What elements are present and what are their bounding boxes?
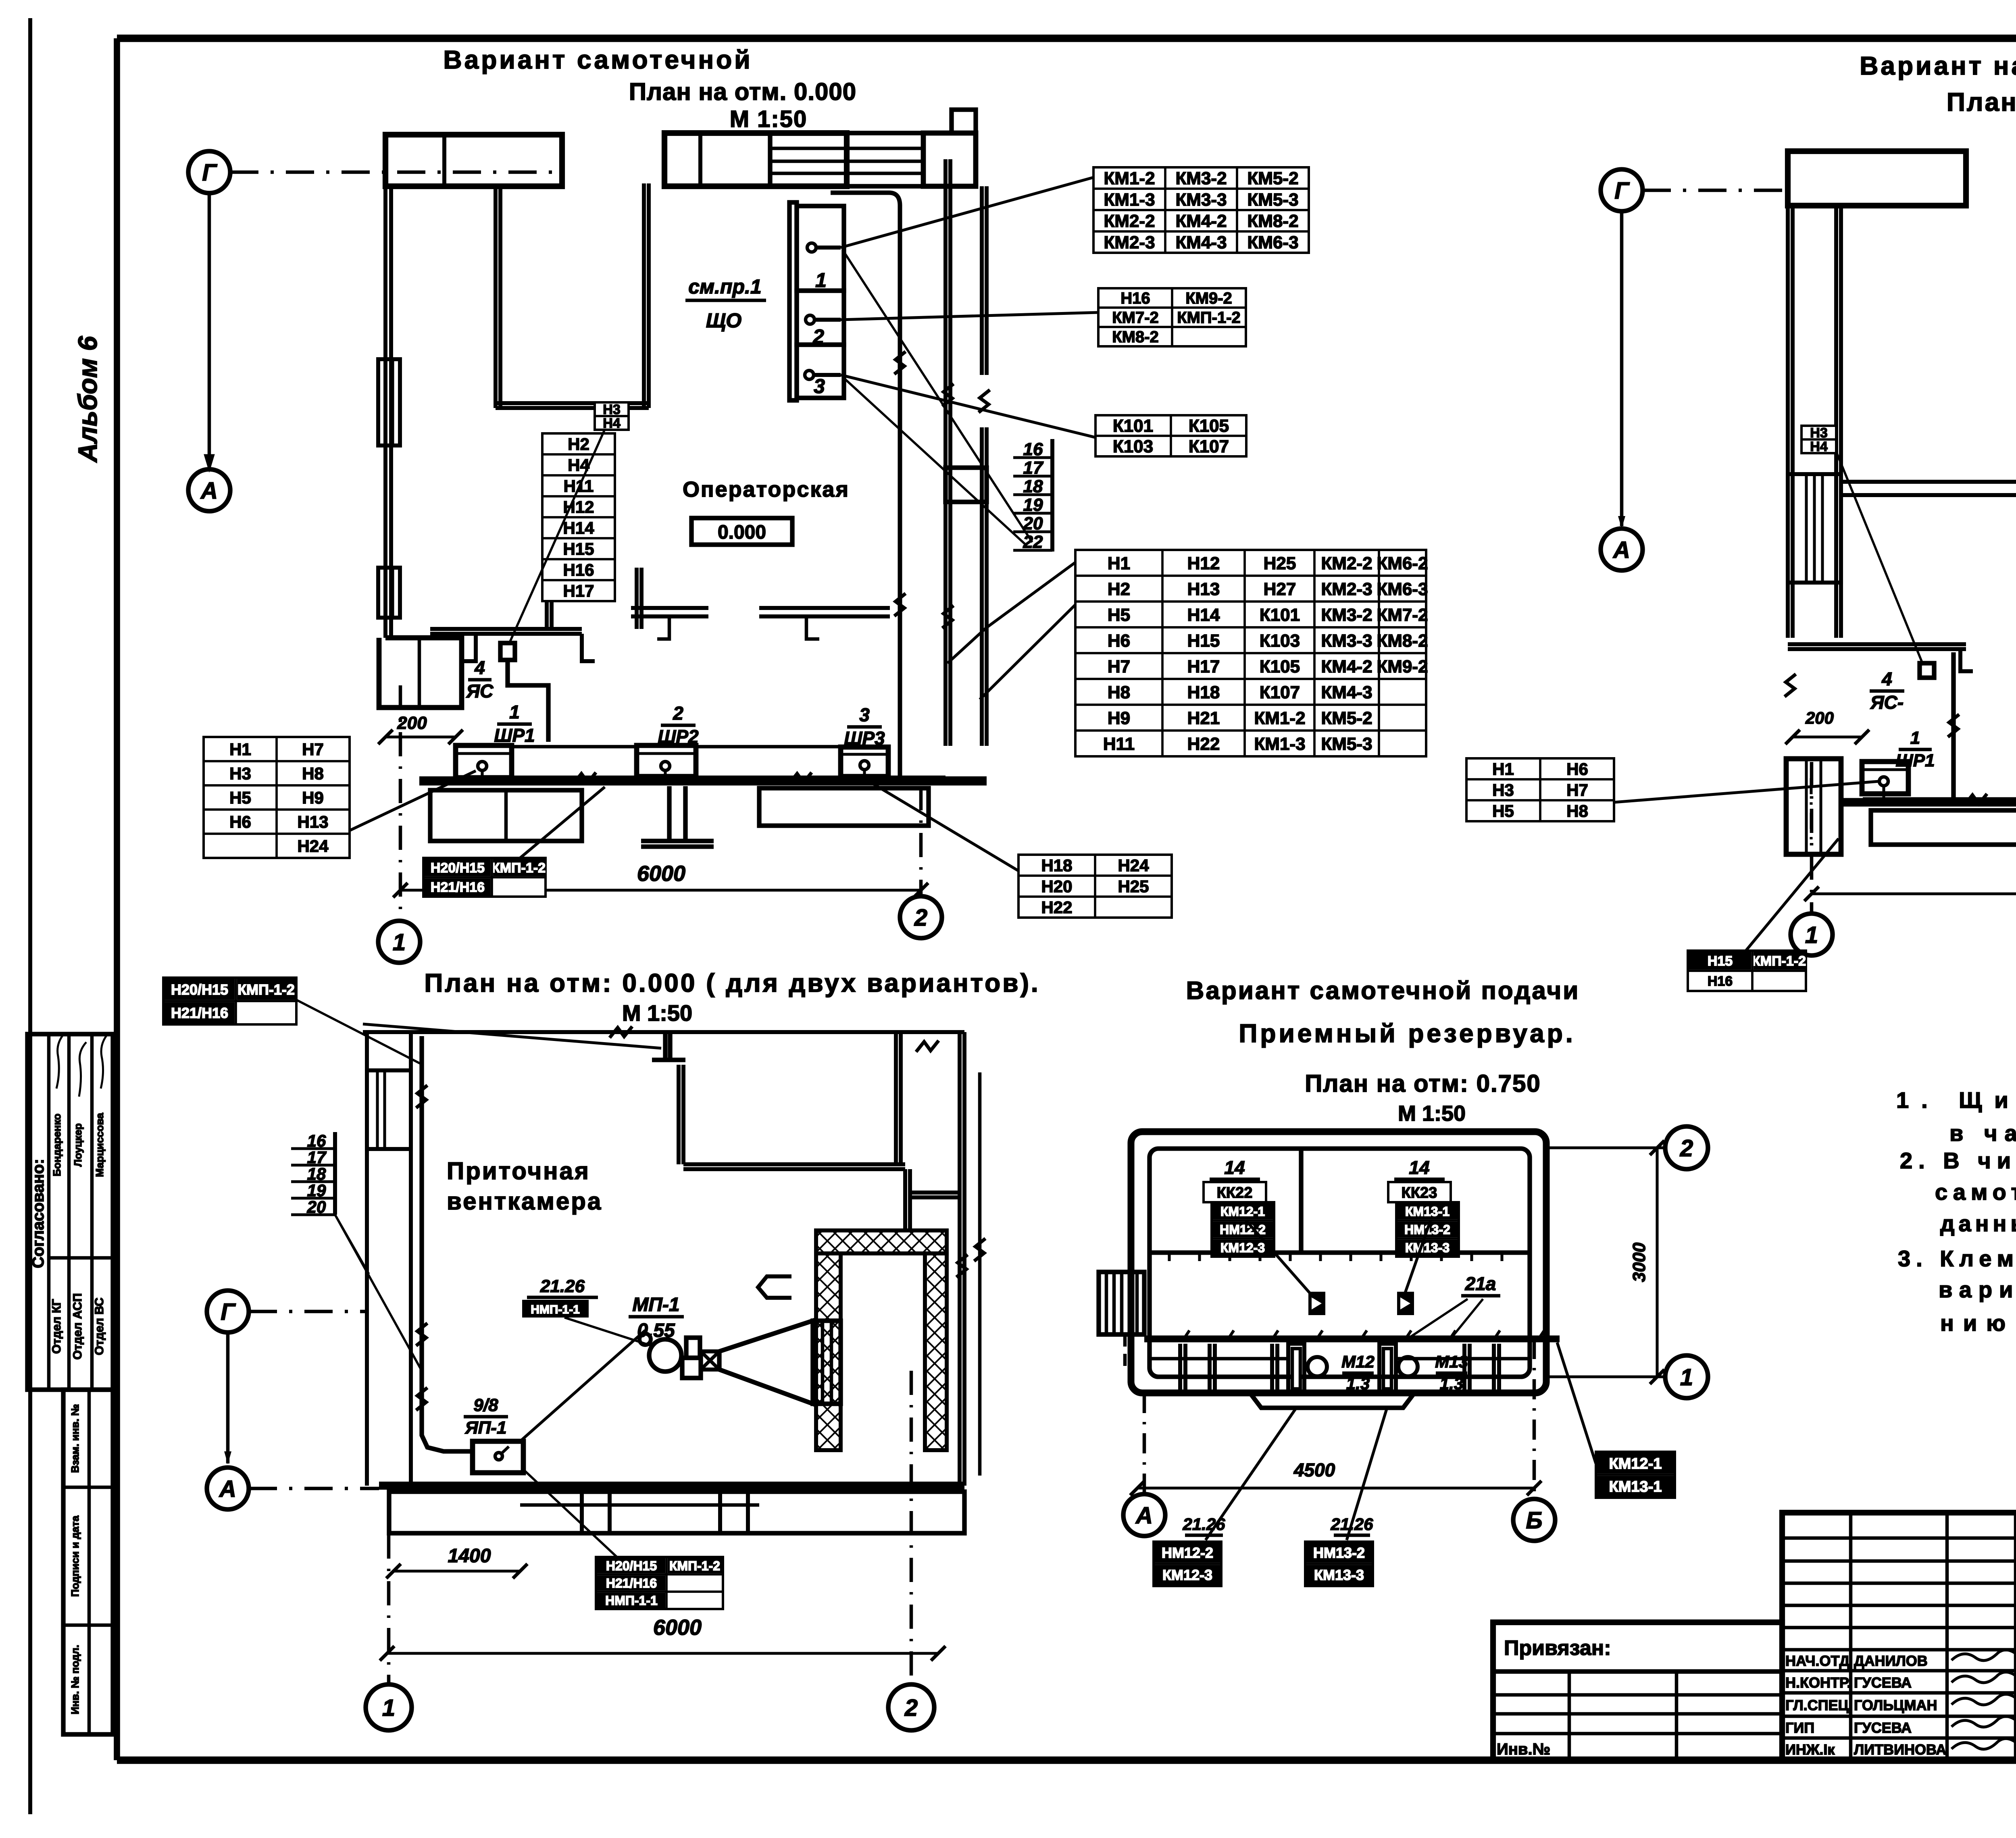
svg-text:Н.КОНТР.: Н.КОНТР. [1785,1674,1851,1691]
plan3 axis Г line [249,1310,367,1313]
plan4 title line4 [1398,1101,1466,1126]
svg-text:Н4: Н4 [603,416,621,431]
plan4 junction box КК23 [1397,1292,1414,1315]
svg-text:4: 4 [474,657,485,678]
plan3 interior L wall vertical [679,1065,683,1164]
plan1 cabinet ШР2 [637,745,696,781]
svg-text:К107: К107 [1260,683,1300,702]
plan1 cabinet ШР1 [456,745,512,781]
svg-text:КМ13-3: КМ13-3 [1314,1567,1364,1583]
sheet outer edge line left [28,18,32,1814]
svg-text:КК22: КК22 [1217,1184,1253,1201]
plan3 number ladder 16-20 [291,1131,335,1216]
svg-text:Инв. № подл.: Инв. № подл. [69,1645,81,1715]
plan1 axis circle 1 [378,921,420,963]
leader plan1 panel crossing 2 [843,377,1026,545]
plan2 dim 200 a [1785,708,1869,744]
svg-text:КМП-1-2: КМП-1-2 [669,1559,720,1573]
svg-text:Н8: Н8 [1108,683,1130,702]
plan4 leader pump1 to table [1206,1408,1296,1540]
plan1 cabinet ШР3 [841,747,888,781]
svg-text:6000: 6000 [653,1615,702,1640]
plan2 axis А circle [1601,529,1643,570]
plan3 interior wall vertical right [905,1169,910,1230]
plan1 interior wall horizontal [496,403,649,408]
svg-text:НАЧ.ОТД: НАЧ.ОТД [1785,1653,1849,1669]
plan4 table 14 КК23 [1388,1157,1459,1257]
svg-text:1.3: 1.3 [1440,1374,1463,1393]
plan1 southwest room [379,638,462,708]
svg-text:Н24: Н24 [297,837,329,856]
svg-text:Н1: Н1 [1108,554,1130,573]
svg-text:М 1:50: М 1:50 [730,106,808,132]
plan1 south rooms walls [430,568,641,634]
plan4 tank partition [1299,1149,1303,1253]
plan4 table НМ13-2 [1305,1542,1373,1586]
svg-text:М13: М13 [1435,1352,1468,1371]
svg-text:Н7: Н7 [1566,781,1588,799]
svg-text:4: 4 [1881,668,1892,689]
notes item 2 line 1 [1900,1148,2016,1173]
plan1 interior wall vertical center [644,183,649,408]
svg-text:Н17: Н17 [1187,657,1220,677]
plan2 south slab a [1871,810,2016,845]
leader plan1 Н18 table to ШР3 [867,780,1018,871]
svg-text:Н11: Н11 [1103,734,1135,754]
svg-text:КМ2-2: КМ2-2 [1321,554,1372,573]
svg-text:А: А [219,1476,236,1502]
svg-text:НМП-1-1: НМП-1-1 [531,1303,580,1316]
svg-text:Г: Г [1614,178,1630,204]
plan2 cable run bottom [1863,794,2016,805]
plan1 title line2 [629,78,856,105]
svg-text:14: 14 [1409,1157,1429,1178]
svg-text:ГОЛЬЦМАН: ГОЛЬЦМАН [1854,1697,1937,1713]
svg-text:Н2: Н2 [1108,579,1130,599]
svg-text:Н1: Н1 [1492,760,1514,778]
plan4 label 21а [1409,1273,1500,1338]
plan1 label 1/ШР1 [494,701,535,746]
plan4 table НМ12-2 [1154,1542,1221,1586]
svg-text:Н13: Н13 [297,812,328,831]
svg-text:КМ1-2: КМ1-2 [1254,708,1305,728]
plan3 leader fan to ЯП [520,1330,645,1441]
svg-text:КМ8-2: КМ8-2 [1112,328,1159,346]
svg-text:Н20/Н15: Н20/Н15 [171,981,228,998]
svg-text:КМ5-2: КМ5-2 [1247,169,1298,188]
plan2 north wall west block [1788,151,1966,206]
svg-text:3. Клеммные коробки КК12.: 3. Клеммные коробки КК12. КК23 при- [1898,1246,2016,1271]
plan2 cabinet ШР1 [1862,762,1908,799]
svg-text:2: 2 [914,905,927,931]
plan3 hatched wall vertical [816,1253,841,1450]
svg-text:ЯС-: ЯС- [1870,692,1904,713]
notes item 1 line 2 [1949,1120,2016,1146]
svg-text:Согласовано:: Согласовано: [29,1159,47,1268]
svg-text:Н18: Н18 [1187,683,1220,702]
svg-text:Н8: Н8 [302,764,324,783]
plan1 dim 6000 line [393,862,928,897]
svg-text:КМ6-2: КМ6-2 [1377,554,1428,573]
plan4 barrier line [1144,1330,1560,1339]
svg-text:А: А [200,478,218,504]
svg-text:КМ9-2: КМ9-2 [1377,657,1428,677]
svg-text:Н27: Н27 [1264,579,1296,599]
plan1 box list Н3 Н4 [595,402,629,431]
plan4 junction box КК12 [1308,1292,1325,1315]
svg-text:0.000: 0.000 [718,522,766,543]
plan1 east wall breaks [942,384,990,628]
svg-text:200: 200 [397,713,427,733]
svg-text:ШР1: ШР1 [1896,751,1935,770]
svg-text:Г: Г [221,1299,236,1325]
plan4 table 14 КК22 [1204,1157,1274,1257]
svg-text:Н2: Н2 [568,435,589,454]
svg-text:КМ1-2: КМ1-2 [1104,169,1155,188]
svg-text:КМ13-1: КМ13-1 [1405,1204,1450,1219]
svg-text:Вариант самотечной: Вариант самотечной [443,45,752,74]
svg-text:Н9: Н9 [302,788,324,807]
plan3 ladder leaders [335,1215,422,1371]
svg-text:К101: К101 [1113,416,1153,436]
svg-text:КМ12-1: КМ12-1 [1609,1455,1662,1472]
svg-text:14: 14 [1224,1157,1245,1178]
svg-text:К105: К105 [1260,657,1300,677]
svg-text:НМ13-2: НМ13-2 [1313,1545,1365,1561]
svg-text:Н8: Н8 [1566,801,1588,820]
svg-text:ГИП: ГИП [1785,1719,1814,1736]
svg-text:Отдел КГ: Отдел КГ [50,1299,63,1354]
plan1 panel ЩО plate [789,202,797,400]
svg-text:КМ8-2: КМ8-2 [1377,631,1428,651]
plan4 rails far left [1180,1344,1277,1393]
plan1 label 3/ШР3 [844,704,885,749]
plan1 south slab west [430,790,582,841]
leader plan1 panel3 to К101 table [841,375,1095,437]
svg-text:Лоуцкер: Лоуцкер [72,1123,84,1167]
plan3 fan pump body [682,1338,701,1378]
plan4 label М13 [1435,1352,1468,1393]
svg-text:КМ7-2: КМ7-2 [1377,605,1428,625]
table plan3 bottom [596,1557,723,1609]
plan1 label см.пр.1/ЩО [685,275,766,332]
svg-text:4500: 4500 [1293,1459,1335,1480]
plan4 pump M13 circle [1398,1357,1418,1376]
plan2 interior wall vertical left [1836,206,1841,638]
plan3 label МП-1 0.55 [629,1294,684,1341]
svg-text:ГУСЕВА: ГУСЕВА [1854,1674,1912,1691]
svg-text:А: А [1612,537,1630,563]
plan3 top T column [652,1032,685,1060]
svg-text:КМ2-3: КМ2-3 [1321,579,1372,599]
plan4 dim 4500 [1130,1459,1541,1495]
svg-text:Н7: Н7 [1108,657,1130,677]
plan4 left ladder [1099,1272,1144,1334]
svg-text:ГЛ.СПЕЦ: ГЛ.СПЕЦ [1785,1697,1849,1713]
plan1 axis Г circle [188,151,230,193]
svg-text:ШР1: ШР1 [494,725,535,746]
plan3 title line1 [424,968,1040,997]
svg-text:данные для варианта напорн: данные для варианта напорной подачи. [1940,1211,2016,1236]
svg-text:ЩО: ЩО [706,309,741,332]
svg-text:Н3: Н3 [1492,781,1514,799]
svg-text:КМ13-1: КМ13-1 [1609,1478,1662,1495]
svg-text:КМ12-1: КМ12-1 [1220,1204,1265,1219]
notes item 2 line 2 [1935,1179,2016,1205]
plan3 hatched wall vertical right [925,1253,947,1450]
svg-text:Альбом 6: Альбом 6 [73,335,102,463]
plan4 mid horizontal lines [1150,1357,1530,1361]
plan3 top cut line [363,1026,964,1052]
plan1 interior wall vertical left [496,186,500,408]
svg-text:2. В числителе данные для: 2. В числителе данные для варианта [1900,1148,2016,1173]
plan1 axis A circle [188,469,230,511]
plan2 wall breaks [1785,352,2016,697]
plan3 room label [447,1157,602,1215]
svg-text:1: 1 [1680,1364,1693,1390]
plan1 south T footings [463,634,595,661]
plan4 title line2 [1239,1019,1575,1048]
svg-text:Н4: Н4 [1810,439,1828,454]
plan3 axis2 dashline [910,1371,913,1685]
plan4 tank inner wall [1150,1149,1530,1377]
svg-text:Н21: Н21 [1187,708,1220,728]
plan4 pump M12 circle [1308,1357,1327,1376]
svg-text:3000: 3000 [1629,1243,1649,1282]
svg-text:А: А [1135,1503,1153,1529]
plan1 elevation box 0.000 [691,518,792,545]
plan4 left inlet dash [1123,1334,1127,1371]
plan1 north window [770,133,923,186]
plan3 east cable [974,1072,985,1476]
plan3 axis1 dashline [387,1488,391,1685]
svg-text:Вариант самотечной подачи: Вариант самотечной подачи [1186,977,1580,1005]
svg-text:Н14: Н14 [563,518,594,537]
plan2 south wall thick [1841,798,2016,806]
plan4 axis circle 1 right [1665,1355,1708,1398]
svg-text:Приемный резервуар.: Приемный резервуар. [1239,1019,1575,1048]
plan4 leader КК23 [1404,1220,1431,1296]
stamp block inv numbers [63,1390,113,1734]
svg-text:М12: М12 [1341,1352,1375,1371]
plan1 cabinet wall line [512,745,841,749]
plan3 interior wall horizontal [683,1164,905,1169]
plan4 title line3 [1305,1070,1541,1097]
plan1 west wall [385,186,391,638]
plan3 fan motor small circle [639,1334,651,1345]
svg-text:Н18: Н18 [1041,856,1072,875]
plan3 axis connector [224,1332,231,1464]
svg-text:самотечной подачи, в знамена: самотечной подачи, в знаменателе [1935,1179,2016,1205]
leader plan3 top table [296,1000,422,1064]
plan2 box list Н3 Н4 [1801,425,1836,454]
svg-text:ШР2: ШР2 [658,726,699,747]
svg-text:КМ9-2: КМ9-2 [1185,289,1232,307]
svg-text:КМ4-2: КМ4-2 [1175,211,1227,231]
plan3 fan motor [649,1339,681,1372]
plan3 south slab [389,1492,964,1533]
svg-text:КМ4-3: КМ4-3 [1321,683,1372,702]
svg-text:Н3: Н3 [229,764,251,783]
table H left [204,737,350,858]
svg-text:Подписи и дата: Подписи и дата [69,1515,81,1597]
svg-text:К101: К101 [1260,605,1300,625]
svg-text:НМП-1-1: НМП-1-1 [605,1593,658,1608]
svg-text:Отдел АСП: Отдел АСП [71,1293,84,1360]
svg-text:ЛИТВИНОВА: ЛИТВИНОВА [1854,1741,1946,1758]
svg-text:Операторская: Операторская [683,477,850,502]
plan1 axis1 dashline [399,685,402,921]
svg-text:1: 1 [393,929,406,955]
plan1 title line1 [443,45,752,74]
svg-text:Н22: Н22 [1187,734,1220,754]
svg-text:2: 2 [1680,1135,1693,1161]
svg-text:ИНЖ.Iк: ИНЖ.Iк [1785,1741,1835,1758]
plan1 west window 2 [378,568,400,618]
svg-text:см.пр.1: см.пр.1 [688,275,761,298]
stamp block Согласовано [27,1034,113,1390]
leader plan1 panel2 to Н16 table [841,312,1098,320]
svg-text:21а: 21а [1465,1273,1496,1294]
plan1 label 4/ЯС [466,657,494,701]
svg-text:КМ6-3: КМ6-3 [1247,233,1298,252]
plan1 axis2 dashline [919,786,923,896]
plan1 panel box 2 [797,291,844,348]
svg-text:КМ12-3: КМ12-3 [1162,1567,1212,1583]
plan3 axis А circle [207,1467,249,1509]
svg-text:Б: Б [1526,1507,1542,1534]
plan2 axis Г line [1643,189,1788,192]
svg-text:в части АТХ.: в части АТХ. [1949,1120,2016,1146]
svg-text:КМ3-3: КМ3-3 [1321,631,1372,651]
plan3 east outer wall [956,1032,968,1486]
plan4 shelf line [1150,1253,1530,1261]
plan1 south slab east [759,788,929,826]
svg-text:КМ5-3: КМ5-3 [1247,190,1298,210]
leader plan1 panel1 to КМ table [841,177,1093,248]
svg-text:План на отм: 0.000: План на отм: 0.000 [1947,87,2016,117]
svg-text:венткамера: венткамера [447,1188,602,1215]
plan1 west window 1 [378,359,400,445]
plan2 west rooms south wall [1788,644,1973,671]
svg-text:Н14: Н14 [1187,605,1220,625]
plan2 west window [1788,474,1841,583]
svg-text:Инв.№: Инв.№ [1497,1740,1550,1758]
table Н18 Н24 [1018,855,1172,918]
svg-text:Н15: Н15 [1187,631,1220,651]
svg-text:Н20/Н15: Н20/Н15 [606,1559,657,1573]
plan4 label 21.26 left [1182,1515,1225,1535]
svg-text:КМ7-2: КМ7-2 [1112,309,1159,327]
svg-text:21.26: 21.26 [540,1276,585,1296]
plan3 label 9/8 ЯП-1 [464,1395,508,1438]
plan3 hatched wall horizontal [816,1230,947,1253]
svg-text:КМ3-2: КМ3-2 [1321,605,1372,625]
plan4 axis circle А [1123,1494,1165,1536]
leader plan1 H big table [948,562,1075,663]
svg-text:2: 2 [673,703,683,724]
svg-text:Н21/Н16: Н21/Н16 [431,880,485,895]
plan4 label 21.26 right [1330,1515,1373,1535]
plan3 fan outlet [813,1321,841,1404]
svg-text:Н15: Н15 [563,539,594,558]
plan3 cable riser [416,1036,473,1451]
leader plan1 bottom table [520,787,605,858]
svg-text:нию с внешней стороны.: нию с внешней стороны. [1940,1310,2016,1336]
plan3 fan coupling crosshatch [701,1351,719,1370]
plan1 junction box ЯС [500,643,515,660]
svg-text:Н5: Н5 [1108,605,1130,625]
plan2 cable drop to ШР1 [1948,652,1959,797]
svg-text:200: 200 [1805,708,1834,727]
svg-text:КМ3-3: КМ3-3 [1175,190,1227,210]
svg-text:Н22: Н22 [1041,898,1072,917]
plan2 axis connector [1618,211,1625,529]
album label [73,335,102,463]
svg-text:КМ5-2: КМ5-2 [1321,708,1372,728]
svg-text:План на отм. 0.000: План на отм. 0.000 [629,78,856,105]
svg-text:варить к металлическому огр: варить к металлическому огражде- [1939,1277,2016,1302]
plan3 box ЯП-1 [473,1441,523,1473]
svg-text:М 1:50: М 1:50 [1398,1101,1466,1126]
plan1 south wall thick [419,776,987,786]
svg-text:КМ4-2: КМ4-2 [1321,657,1372,677]
plan2 title line1 [1860,51,2016,80]
svg-text:Н13: Н13 [1187,579,1220,599]
table plan3 top Н20/Н15 [163,978,296,1024]
plan3 axis circle 1 [366,1684,412,1730]
svg-text:НМ12-2: НМ12-2 [1162,1545,1213,1561]
plan1 north wall middle block [664,133,847,186]
svg-text:1. Щит оператора зака: 1. Щит оператора заказан [1896,1087,2016,1113]
leader plan2 Н1Н6 to ШР1 [1614,781,1879,802]
plan1 number ladder 16-22 [1013,439,1052,552]
svg-text:1: 1 [815,269,827,291]
svg-text:КК23: КК23 [1402,1184,1437,1201]
svg-text:М 1:50: М 1:50 [622,1000,692,1026]
plan3 west wall [367,1032,411,1486]
plan2 dim 6000 [1804,864,2016,901]
svg-text:КМ8-2: КМ8-2 [1247,211,1298,231]
table Н16 КМ9-2 [1098,288,1246,346]
notes item 3 line 3 [1940,1310,2016,1336]
svg-text:Приточная: Приточная [447,1157,590,1184]
plan2 southwest block [1786,759,1841,854]
plan1 south slab middle T [641,786,714,847]
plan3 axis circle 2 [888,1684,934,1730]
plan3 dim 6000 [380,1615,946,1661]
svg-text:1400: 1400 [448,1545,491,1567]
plan1 title line3 [730,106,808,132]
svg-text:ШР3: ШР3 [844,728,885,749]
svg-text:КМП-1-2: КМП-1-2 [1752,953,1806,969]
plan1 east corridor wall inner [946,159,950,746]
svg-text:Вариант напорной подачи: Вариант напорной подачи [1860,51,2016,80]
plan2 label 4/ЯС [1870,668,1904,713]
svg-text:КМ6-3: КМ6-3 [1377,579,1428,599]
table К101 К105 [1095,415,1246,456]
svg-text:21.26: 21.26 [1182,1515,1225,1534]
plan4 title line1 [1186,977,1580,1005]
plan4 leader КК22 [1246,1220,1314,1297]
svg-text:КМ12-3: КМ12-3 [1220,1241,1265,1255]
table H big [1075,550,1428,756]
plan2 label 1/ШР1 [1896,728,1935,770]
svg-text:3: 3 [859,704,870,725]
plan1 corridor wall posts [657,616,819,639]
svg-text:ЯП-1: ЯП-1 [465,1418,507,1438]
svg-text:Н16: Н16 [563,560,594,579]
